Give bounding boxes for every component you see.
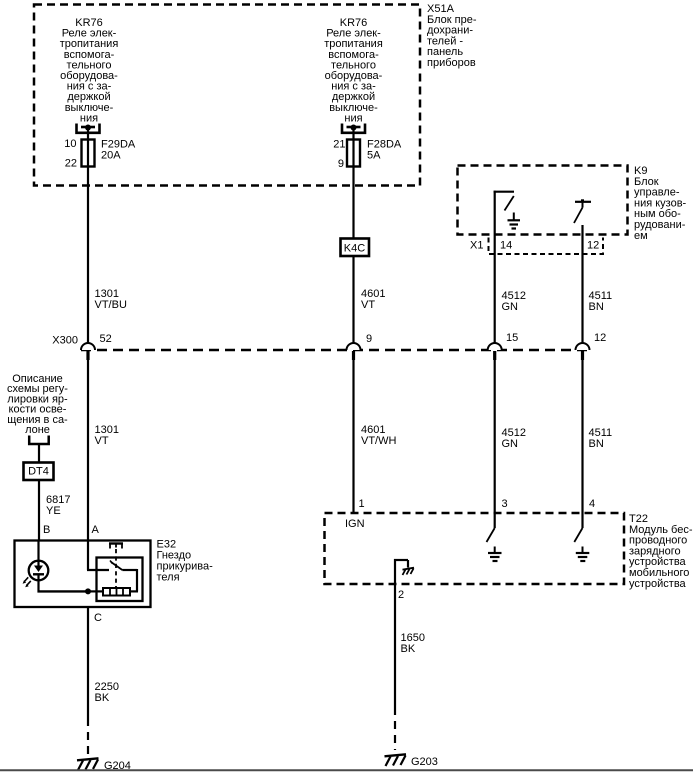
svg-text:VT: VT	[95, 435, 109, 447]
device DT4	[24, 463, 54, 481]
label E32	[157, 539, 214, 584]
svg-text:BK: BK	[95, 692, 110, 704]
svg-text:22: 22	[65, 158, 77, 170]
svg-text:2: 2	[398, 589, 404, 601]
wire label 1301 VT	[95, 424, 119, 447]
svg-text:GN: GN	[502, 301, 519, 313]
label K9 body control module	[634, 165, 687, 242]
svg-text:5A: 5A	[367, 150, 381, 162]
svg-text:A: A	[92, 524, 100, 536]
svg-text:9: 9	[338, 158, 344, 170]
wire label 1301 VT/BU	[95, 288, 127, 311]
svg-text:ем: ем	[634, 230, 648, 242]
label X51A fuse block - instrument panel	[427, 3, 477, 69]
wire connector pin 9 to T22 pin 1	[352, 360, 354, 514]
svg-text:лоне: лоне	[25, 424, 50, 436]
wire label 4601 VT/WH	[361, 424, 396, 447]
relay contact terminal (right KR76)	[342, 124, 365, 133]
wire bracket to DT4	[38, 444, 40, 463]
svg-text:ния: ния	[80, 112, 98, 124]
svg-text:12: 12	[594, 332, 606, 344]
wire label 4511 BN (lower)	[589, 427, 613, 450]
svg-text:устройства: устройства	[629, 578, 687, 590]
fuse F29DA 20A	[64, 138, 136, 170]
svg-text:52: 52	[100, 333, 112, 345]
svg-text:VT: VT	[361, 299, 375, 311]
svg-text:9: 9	[366, 333, 372, 345]
connector pin 12	[576, 332, 607, 360]
control module K9 dashed box	[458, 166, 628, 235]
wire label 4511 BN (upper)	[589, 290, 613, 313]
svg-text:21: 21	[333, 139, 345, 151]
splice K4C	[341, 239, 370, 257]
svg-text:BN: BN	[589, 438, 604, 450]
relay KR76 label (left)	[60, 17, 119, 124]
dashed wire to G203	[394, 707, 396, 750]
wire label 4512 GN (lower)	[502, 427, 526, 450]
svg-text:3: 3	[502, 498, 508, 510]
svg-text:12: 12	[587, 240, 599, 252]
wire lamp to junction	[38, 590, 90, 592]
wire connector to E32 pin A	[87, 360, 89, 570]
wireless charging module T22 dashed box	[325, 513, 625, 584]
wire K9 pin 14 to connector pin 15	[494, 254, 496, 344]
dashed wire to G204	[87, 718, 89, 754]
svg-text:K4C: K4C	[344, 243, 365, 255]
svg-text:B: B	[43, 524, 50, 536]
wire label 2250 BK	[95, 681, 119, 704]
svg-text:BN: BN	[589, 301, 604, 313]
svg-text:X300: X300	[52, 335, 78, 347]
switch blade in lighter	[110, 561, 122, 571]
svg-text:C: C	[94, 612, 102, 624]
switch inside K9 (right)	[574, 199, 591, 254]
wire T22 pin 2 down	[394, 584, 396, 707]
svg-text:VT/WH: VT/WH	[361, 435, 396, 447]
wire label 6817 YE	[46, 494, 70, 517]
switch to ground in T22 (right)	[574, 528, 589, 561]
svg-text:4: 4	[589, 498, 595, 510]
fuse F28DA 5A	[333, 139, 402, 171]
svg-text:GN: GN	[502, 438, 519, 450]
wire label 4601 VT	[361, 288, 385, 311]
ground G203	[385, 754, 438, 768]
wire E32 pin C down	[87, 607, 89, 718]
ground G204	[77, 758, 131, 772]
light emission arrows	[23, 577, 31, 587]
svg-text:1: 1	[359, 498, 365, 510]
svg-text:IGN: IGN	[345, 518, 365, 530]
wire junction to heater	[88, 590, 103, 592]
connector X1 dashed box	[470, 238, 603, 255]
label T22 wireless charging module	[629, 513, 693, 590]
svg-text:10: 10	[64, 138, 76, 150]
svg-text:BK: BK	[401, 643, 416, 655]
svg-text:теля: теля	[157, 572, 180, 584]
svg-text:15: 15	[506, 332, 518, 344]
connector pin 52	[81, 333, 112, 360]
relay contact terminal (left KR76)	[77, 124, 100, 133]
wire DT4 to E32 pin B	[38, 480, 40, 540]
switch to ground in T22 (left)	[487, 528, 502, 561]
relay KR76 label (right)	[324, 17, 383, 124]
heater element	[103, 588, 130, 596]
ground symbol inside K9	[508, 213, 521, 229]
note dimming description	[7, 373, 68, 436]
svg-text:DT4: DT4	[28, 466, 49, 478]
wire label 4512 GN (upper)	[502, 290, 526, 313]
thermal contact bracket above inner box	[109, 544, 123, 549]
svg-text:20A: 20A	[101, 150, 121, 162]
bracket symbol	[29, 436, 49, 445]
internal ground lead in T22	[394, 559, 414, 584]
svg-text:VT/BU: VT/BU	[95, 299, 127, 311]
switch contact to heater	[122, 569, 138, 591]
wire fuse1 to connector X300 pin 52	[87, 128, 89, 344]
wire connector pin 12 to T22 pin 4	[581, 360, 583, 528]
wire connector pin 15 to T22 pin 3	[494, 360, 496, 528]
svg-text:ния: ния	[344, 112, 362, 124]
lighter element inner box	[97, 558, 143, 602]
svg-text:G203: G203	[411, 756, 438, 768]
junction node	[85, 588, 91, 594]
wire fuse2 to K4C	[352, 128, 354, 238]
lamp (illumination LED)	[29, 561, 49, 593]
svg-text:X1: X1	[470, 240, 483, 252]
dashed actuation line	[115, 549, 117, 588]
switch to ground inside K9 (left)	[494, 191, 514, 254]
cigarette lighter socket E32 box	[15, 541, 151, 608]
page bottom border	[0, 769, 693, 771]
connector pin 9	[347, 333, 373, 360]
svg-text:YE: YE	[46, 505, 61, 517]
connector pin 15	[488, 332, 519, 360]
wire label 1650 BK	[401, 632, 425, 655]
svg-text:приборов: приборов	[427, 57, 476, 69]
fuse block X51A dashed box	[34, 5, 420, 186]
wire K4C to connector X300 pin 9	[352, 256, 354, 344]
wire K9 pin 12 to connector pin 12	[581, 254, 583, 344]
connector X300 dashed line	[52, 335, 589, 351]
svg-text:14: 14	[500, 240, 512, 252]
wire pin B to lamp	[37, 540, 39, 566]
wire pin A bend into switch	[87, 569, 109, 571]
